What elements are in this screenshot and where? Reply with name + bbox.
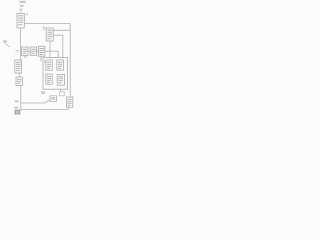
text rows in box P2 — [17, 79, 21, 80]
label under container bottom left — [41, 91, 45, 94]
label FIG numeral top line1 — [20, 1, 26, 3]
box IB4 — [57, 74, 64, 85]
text rows in box M — [48, 30, 53, 31]
text rows in box IB4 — [58, 76, 63, 77]
label dash left of row bus — [16, 50, 20, 51]
label arrow tick above box T — [20, 9, 23, 11]
text rows in box TL — [16, 62, 21, 63]
box BR bottom right block — [66, 97, 72, 107]
text rows in box IB2 — [58, 62, 62, 63]
label mini-box under IB4 — [60, 92, 65, 96]
label numeral left of IB1 — [44, 61, 46, 63]
container C — [43, 58, 68, 90]
wire rail R1 left vertical (upper) — [20, 28, 22, 60]
box TL tall left block — [15, 60, 22, 73]
label box 150 — [50, 96, 57, 102]
text rows in box BR — [68, 99, 72, 100]
terminal dark boxlet at rail end — [15, 110, 20, 114]
wire stub under box L3 — [40, 56, 42, 61]
label numeral left of box M — [43, 27, 46, 29]
wire H5 lower branch — [21, 102, 45, 104]
label 102 right of box T — [26, 14, 28, 16]
wire leader for numeral 10 — [6, 44, 10, 48]
wire stub box BR to H6 — [68, 107, 70, 109]
wire H3 box M right then down — [53, 35, 63, 60]
wire rail R1 left vertical (mid) — [18, 73, 20, 77]
box IB3 — [46, 74, 52, 84]
box L2 — [30, 47, 36, 56]
wire H6 bottom bus — [21, 109, 69, 111]
box M upper middle block — [46, 28, 53, 41]
wire H2 box M to rail R2 — [53, 29, 70, 31]
text rows in box L2 — [31, 49, 35, 50]
box T top block — [17, 14, 24, 29]
wire rail R1 left vertical (lower) — [20, 86, 22, 111]
label left of H6 junction — [14, 107, 18, 109]
wire H1 top horizontal bus — [24, 23, 70, 25]
wire stub IB4 to container bottom — [60, 85, 62, 92]
label inside 150 box — [51, 97, 55, 99]
wire stub IB1 to IB3 — [48, 70, 50, 74]
text rows in box IB3 — [47, 76, 51, 77]
label under box L1 — [24, 56, 27, 58]
wire H4 row bus — [28, 50, 58, 52]
wire rail R2 right vertical — [69, 24, 71, 98]
wire stub IB3 to container bottom — [48, 84, 50, 89]
text rows in box L1 — [23, 49, 27, 50]
label numeral 10 left margin — [3, 40, 7, 43]
wire leader diagonal to label 150 — [45, 100, 50, 103]
box IB1 — [46, 60, 52, 70]
text rows in box T — [18, 15, 23, 16]
wire V4 down into IB2 — [57, 51, 59, 60]
wire V1 box M down to container — [49, 41, 51, 60]
text rows in box IB1 — [47, 62, 51, 63]
box L1 — [22, 47, 29, 56]
box IB2 — [57, 60, 64, 70]
box L3 — [38, 46, 44, 56]
wire stub IB2 to IB4 — [59, 70, 61, 74]
text rows in box L3 — [40, 48, 44, 49]
label left of H5 junction — [15, 100, 19, 102]
label numeral 100 — [20, 5, 24, 7]
box P2 left block — [16, 77, 22, 86]
